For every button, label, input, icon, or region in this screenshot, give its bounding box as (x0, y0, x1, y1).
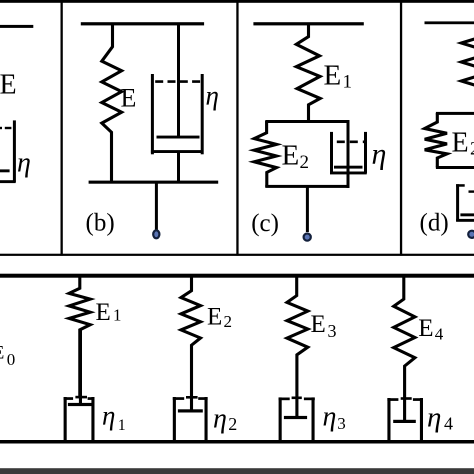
dashpot 1 cylinder left wall (64, 397, 67, 441)
parallel box top bar (d) (436, 112, 474, 115)
svg-text:η: η (372, 137, 387, 170)
bottom bar (b) (89, 181, 219, 184)
svg-text:(c): (c) (251, 210, 279, 237)
rigid bottom bar (0, 440, 474, 444)
svg-text:2: 2 (470, 139, 474, 160)
svg-text:E: E (0, 344, 4, 364)
dashpot cylinder right wall (a) (13, 120, 16, 182)
svg-text:E: E (121, 83, 137, 112)
dashpot 1 top edge left segment (64, 397, 74, 400)
spring E1 (d, clipped) (461, 34, 474, 91)
load stem (b) (155, 183, 158, 231)
svg-text:(d): (d) (420, 210, 449, 237)
dashpot 3 top middle dash (292, 397, 302, 400)
svg-text:4: 4 (444, 413, 453, 433)
svg-text:2: 2 (300, 152, 310, 173)
svg-text:E: E (282, 140, 300, 172)
base frame line (0, 468, 474, 474)
dashpot piston plate (d) (460, 213, 474, 216)
branch 1: spring E1 (69, 275, 90, 398)
dashpot 1 top edge right segment (88, 397, 95, 400)
spring E2 on box left branch (c) (254, 121, 276, 187)
dashpot 2 piston plate (178, 409, 203, 412)
dashpot 2 cylinder left wall (173, 397, 176, 441)
dashpot 3 cylinder left wall (279, 397, 282, 440)
dashpot 3 top edge right segment (304, 398, 315, 401)
svg-text:η: η (102, 400, 115, 430)
svg-text:η: η (213, 404, 227, 435)
dashpot 4 top edge right segment (413, 398, 423, 401)
dashpot piston rod (b) (177, 24, 180, 137)
svg-text:E: E (324, 59, 342, 91)
spring E2 on box left branch (d) (425, 113, 447, 168)
anchor bar (b) (81, 22, 204, 25)
anchor bar (c) (253, 22, 363, 25)
svg-text:E: E (0, 70, 17, 101)
panel divider b|c (236, 0, 238, 256)
dashpot lower stem (b) (177, 153, 180, 184)
dashpot dashed line (d) (469, 190, 474, 192)
branch 3: spring E3 (287, 275, 308, 417)
anchor bar (d) (425, 21, 474, 24)
parallel box bottom bar (c) (265, 185, 349, 188)
dashpot cylinder bottom (b) (151, 150, 204, 153)
dashpot 1 cylinder right wall (91, 397, 94, 441)
panel divider a|b (61, 0, 63, 256)
dashpot top edge segment (d) (456, 184, 465, 187)
dashpot cylinder left wall (d) (456, 184, 459, 221)
spring E1 (c) (296, 24, 320, 122)
dashpot piston plate (a) (0, 169, 10, 172)
anchor bar (a) (0, 25, 33, 28)
dashpot piston plate (b) (157, 136, 200, 139)
dashpot 3 cylinder right wall (312, 397, 315, 440)
dashpot 2 cylinder right wall (205, 397, 208, 441)
svg-text:2: 2 (228, 414, 237, 434)
dashpot 3 top edge left segment (279, 398, 290, 401)
dashpot 4 cylinder left wall (387, 398, 390, 441)
svg-text:3: 3 (337, 414, 346, 433)
load stem (c) (306, 187, 309, 232)
dashpot 4 piston plate (393, 420, 416, 423)
dashpot cylinder left wall (c) (330, 132, 333, 174)
dashpot 1 piston rod (79, 329, 82, 404)
dashpot 4 top edge left segment (387, 398, 398, 401)
svg-text:1: 1 (113, 306, 122, 325)
svg-text:0: 0 (7, 350, 16, 369)
load point dot (c) (304, 234, 311, 241)
dashpot cylinder bottom (a) (0, 180, 16, 183)
branch 4: spring E4 (394, 275, 415, 421)
dashpot 1 piston plate (68, 403, 93, 406)
dashpot piston plate (c) (334, 166, 363, 169)
row bottom border (0, 254, 474, 256)
load point dot (d, clipped) (468, 231, 474, 238)
dashpot 2 top edge left segment (173, 397, 184, 400)
svg-text:1: 1 (118, 417, 126, 434)
dashpot 4 top middle dash (401, 397, 412, 400)
dashpot cylinder bottom (c) (330, 172, 367, 175)
svg-text:E: E (311, 311, 326, 338)
dashpot dashed fluid line (a) (0, 127, 2, 129)
svg-text:η: η (427, 401, 441, 433)
svg-text:E: E (418, 315, 433, 342)
svg-text:η: η (206, 81, 219, 111)
svg-text:3: 3 (328, 321, 337, 341)
dashpot 4 cylinder right wall (420, 398, 423, 441)
dashpot 1 top middle dash (75, 396, 87, 399)
top border frame (0, 0, 474, 3)
dashpot dashed fluid line (b) (155, 80, 202, 83)
dashpot cylinder right wall (c) (364, 132, 367, 174)
panel divider c|d (400, 0, 402, 256)
svg-text:E: E (207, 304, 222, 331)
svg-text:2: 2 (224, 312, 233, 331)
rigid top bar (0, 274, 474, 278)
branch 2: spring E2 (181, 275, 201, 411)
dashpot dashed fluid line (c) (337, 141, 366, 144)
dashpot cylinder left wall (b) (151, 74, 154, 154)
dashpot cylinder right wall (b) (201, 74, 204, 154)
dashpot 3 piston plate (284, 416, 307, 419)
box right wall / piston rod (c) (347, 120, 350, 188)
svg-text:4: 4 (435, 324, 444, 343)
svg-text:E: E (452, 127, 469, 158)
parallel box bottom bar (d) (436, 166, 474, 169)
dashpot 2 top middle dash (186, 396, 198, 399)
parallel box top bar (c) (265, 120, 349, 123)
svg-text:(b): (b) (86, 210, 115, 237)
spring branch (b) (102, 24, 122, 184)
dashpot 2 top edge right segment (198, 397, 207, 400)
svg-text:η: η (17, 148, 31, 179)
dashpot cylinder bottom (d) (456, 219, 474, 222)
svg-text:η: η (323, 402, 337, 433)
svg-text:1: 1 (343, 71, 353, 92)
load point dot (b) (153, 230, 159, 238)
svg-text:E: E (96, 299, 111, 326)
